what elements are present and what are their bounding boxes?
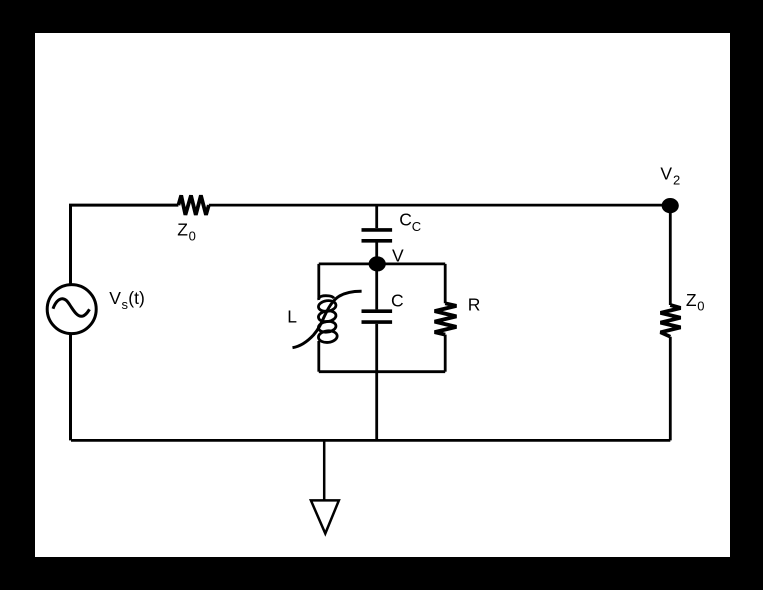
source Vs circle	[47, 285, 96, 334]
inductor L crossing curve	[293, 291, 362, 347]
capacitor CC stub from top wire	[375, 205, 378, 228]
node V dot	[369, 256, 386, 271]
capacitor C stub from node V	[375, 264, 378, 310]
resistor Z0 (series, top)	[178, 195, 208, 215]
svg-text:V: V	[660, 164, 672, 184]
svg-text:C: C	[391, 291, 404, 311]
resistor R (vertical zigzag)	[435, 303, 457, 334]
wire top-left: source top to resistor Z0	[71, 205, 179, 284]
svg-text:C: C	[399, 210, 412, 230]
wire C bottom through box to bottom rail	[375, 324, 378, 441]
svg-text:(t): (t)	[128, 288, 145, 308]
inductor L coil	[318, 296, 338, 346]
svg-text:Z: Z	[177, 220, 188, 240]
wire Z0 load to bottom rail	[669, 337, 672, 441]
ground stem	[323, 440, 326, 500]
tank box right upper wire	[444, 264, 447, 303]
svg-text:0: 0	[189, 229, 196, 244]
svg-text:C: C	[412, 219, 421, 234]
label V2	[660, 164, 680, 188]
label Z0 (series resistor)	[177, 220, 196, 244]
svg-text:L: L	[287, 306, 297, 326]
label C	[391, 291, 404, 311]
capacitor CC stub to node V	[375, 243, 378, 264]
source sine wave	[53, 299, 90, 317]
svg-text:R: R	[468, 294, 481, 314]
label Vs(t)	[109, 288, 145, 312]
wire bottom rail	[71, 439, 670, 442]
capacitor CC top plate	[362, 228, 393, 232]
svg-text:V: V	[109, 288, 121, 308]
label V (node)	[392, 246, 404, 266]
capacitor C bottom plate	[362, 320, 393, 324]
capacitor C top plate	[362, 309, 393, 313]
svg-text:2: 2	[673, 172, 680, 187]
label R	[468, 294, 481, 314]
tank box left upper wire	[317, 264, 320, 299]
node V2 dot	[662, 198, 679, 213]
svg-text:Z: Z	[686, 290, 697, 310]
wire Z0 to node V2	[209, 204, 670, 207]
label L	[287, 306, 297, 326]
resistor Z0 (load, vertical zigzag)	[661, 305, 681, 337]
ground triangle	[311, 500, 339, 533]
tank box top wire	[319, 262, 445, 265]
wire source bottom to ground rail	[69, 334, 72, 441]
tank box bottom wire	[319, 370, 445, 373]
capacitor CC bottom plate	[362, 239, 393, 243]
wire V2 to Z0 load	[669, 206, 672, 305]
label Z0 (load resistor)	[686, 290, 705, 314]
label CC	[399, 210, 421, 234]
svg-text:0: 0	[697, 299, 704, 314]
tank box right lower wire	[444, 335, 447, 372]
tank box left lower wire	[317, 346, 320, 372]
